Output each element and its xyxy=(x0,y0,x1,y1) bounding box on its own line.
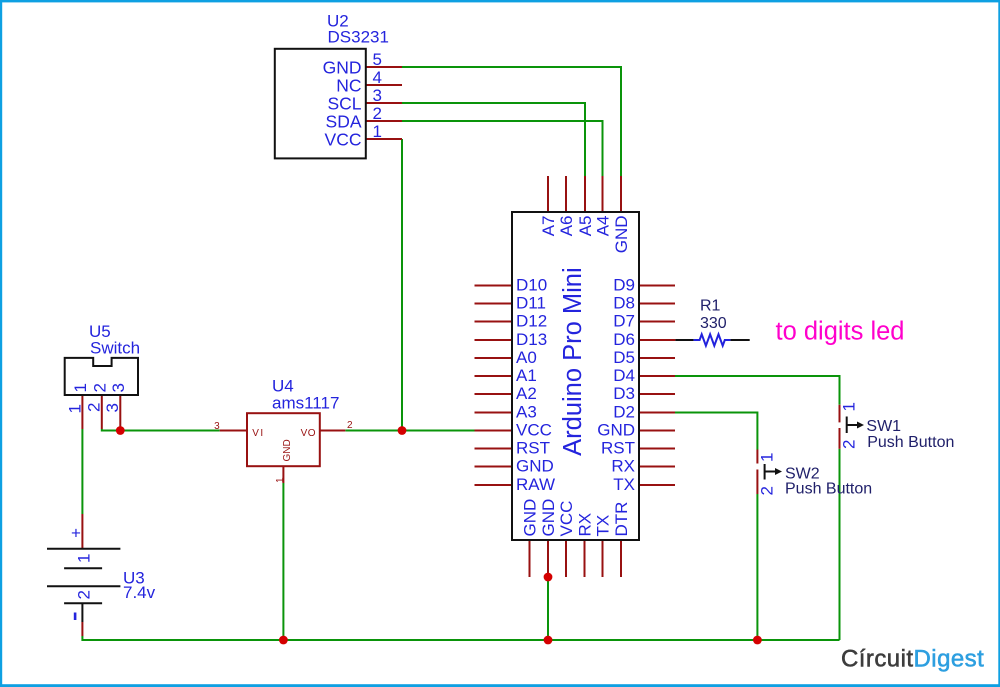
svg-text:D13: D13 xyxy=(516,330,547,349)
svg-text:2: 2 xyxy=(347,420,353,431)
svg-text:D5: D5 xyxy=(613,348,635,367)
svg-text:D10: D10 xyxy=(516,276,547,295)
svg-text:GND: GND xyxy=(516,457,554,476)
svg-text:DTR: DTR xyxy=(612,502,631,537)
svg-text:D4: D4 xyxy=(613,366,635,385)
svg-text:SCL: SCL xyxy=(327,93,361,113)
svg-text:A4: A4 xyxy=(593,216,612,237)
svg-text:3: 3 xyxy=(214,421,220,432)
svg-text:1: 1 xyxy=(373,122,382,141)
svg-text:GND: GND xyxy=(612,216,631,254)
svg-text:3: 3 xyxy=(109,383,128,392)
svg-text:1: 1 xyxy=(757,453,776,462)
svg-text:TX: TX xyxy=(613,475,635,494)
svg-text:A1: A1 xyxy=(516,366,537,385)
svg-text:D12: D12 xyxy=(516,312,547,331)
svg-text:VI: VI xyxy=(252,428,264,439)
svg-text:D8: D8 xyxy=(613,294,635,313)
svg-text:RAW: RAW xyxy=(516,475,555,494)
svg-text:RST: RST xyxy=(516,439,550,458)
svg-text:2: 2 xyxy=(75,590,94,599)
svg-text:TX: TX xyxy=(593,515,612,537)
svg-text:A5: A5 xyxy=(576,216,595,237)
svg-text:A3: A3 xyxy=(516,403,537,422)
svg-text:3: 3 xyxy=(373,86,382,105)
svg-text:SDA: SDA xyxy=(326,111,362,131)
svg-text:2: 2 xyxy=(757,486,776,495)
svg-text:SW1: SW1 xyxy=(866,418,901,435)
svg-text:VCC: VCC xyxy=(557,501,576,537)
svg-text:GND: GND xyxy=(323,57,362,77)
svg-text:2: 2 xyxy=(85,403,104,412)
svg-text:RST: RST xyxy=(601,439,635,458)
svg-text:1: 1 xyxy=(275,477,286,483)
svg-text:7.4v: 7.4v xyxy=(123,583,156,602)
svg-text:1: 1 xyxy=(840,402,859,411)
svg-text:GND: GND xyxy=(597,421,635,440)
svg-text:2: 2 xyxy=(373,104,382,123)
svg-text:RX: RX xyxy=(575,513,594,537)
svg-text:DS3231: DS3231 xyxy=(328,28,389,47)
svg-text:2: 2 xyxy=(91,383,110,392)
svg-text:+: + xyxy=(71,524,81,543)
svg-text:A6: A6 xyxy=(557,216,576,237)
svg-text:VCC: VCC xyxy=(516,421,552,440)
svg-text:A2: A2 xyxy=(516,384,537,403)
svg-text:GND: GND xyxy=(539,499,558,537)
svg-text:GND: GND xyxy=(520,499,539,537)
svg-text:Push Button: Push Button xyxy=(867,434,954,451)
svg-text:5: 5 xyxy=(373,50,382,69)
svg-text:ams1117: ams1117 xyxy=(272,394,339,413)
svg-text:Switch: Switch xyxy=(90,339,140,358)
svg-text:A7: A7 xyxy=(539,216,558,237)
svg-text:D9: D9 xyxy=(613,276,635,295)
svg-text:R1: R1 xyxy=(700,298,721,315)
svg-text:D11: D11 xyxy=(516,294,546,313)
svg-text:NC: NC xyxy=(336,75,361,95)
svg-text:D6: D6 xyxy=(613,330,635,349)
svg-text:D2: D2 xyxy=(613,403,635,422)
svg-text:RX: RX xyxy=(611,457,635,476)
svg-text:to digits led: to digits led xyxy=(776,318,905,346)
svg-text:1: 1 xyxy=(66,404,85,413)
svg-text:3: 3 xyxy=(103,403,122,412)
svg-text:VO: VO xyxy=(301,428,316,439)
svg-text:Push Button: Push Button xyxy=(785,481,872,498)
svg-text:VCC: VCC xyxy=(325,129,362,149)
svg-text:1: 1 xyxy=(75,554,94,563)
svg-text:330: 330 xyxy=(700,315,727,332)
svg-text:A0: A0 xyxy=(516,348,537,367)
svg-text:D7: D7 xyxy=(613,312,635,331)
svg-text:2: 2 xyxy=(840,440,859,449)
svg-text:GND: GND xyxy=(282,439,293,461)
svg-text:4: 4 xyxy=(373,68,382,87)
svg-text:CírcuitDigest: CírcuitDigest xyxy=(841,646,984,673)
svg-text:1: 1 xyxy=(71,383,90,392)
svg-text:Arduino Pro Mini: Arduino Pro Mini xyxy=(559,267,587,456)
svg-text:D3: D3 xyxy=(613,384,635,403)
